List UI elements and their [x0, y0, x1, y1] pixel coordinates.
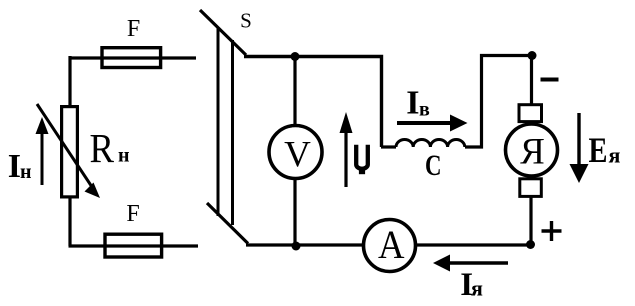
label Iв: [406, 84, 430, 121]
wire coil right lead up to top bus: [465, 56, 532, 148]
svg-text:н: н: [118, 145, 130, 167]
wire voltmeter top lead: [293, 56, 296, 126]
switch S right pole: [231, 40, 234, 225]
junction node (armature bottom): [526, 240, 535, 249]
ammeter A: [364, 220, 416, 272]
svg-text:Я: Я: [520, 132, 545, 173]
svg-text:н: н: [20, 161, 32, 183]
svg-text:F: F: [127, 16, 140, 42]
label plus: [542, 221, 562, 241]
svg-text:I: I: [406, 84, 419, 121]
svg-text:E: E: [589, 130, 608, 170]
rheostat adjustment arrow: [37, 104, 100, 198]
switch S top blade: [200, 10, 246, 55]
switch S bottom blade: [207, 203, 248, 244]
svg-text:я: я: [471, 276, 483, 301]
armature brush bottom: [520, 179, 542, 197]
voltage arrow U: [340, 112, 353, 187]
svg-text:я: я: [609, 143, 621, 168]
svg-text:в: в: [419, 99, 430, 121]
wire top-left horizontal (fuse F1 branch): [70, 56, 196, 59]
emf arrow Eя: [570, 113, 589, 183]
junction node (armature top): [528, 51, 537, 60]
label Eя: [589, 130, 621, 170]
wire armature top lead: [530, 55, 533, 105]
voltmeter V: [269, 126, 322, 179]
fuse F2: [105, 234, 162, 257]
label minus: [541, 78, 559, 82]
svg-text:F: F: [126, 201, 139, 227]
switch S left pole: [217, 28, 220, 216]
current arrow Iн: [36, 117, 49, 185]
svg-text:A: A: [378, 222, 405, 267]
wire voltmeter bottom lead: [293, 178, 296, 246]
current arrow Iв: [397, 115, 468, 132]
svg-text:S: S: [240, 9, 252, 33]
label Iн: [8, 148, 32, 185]
armature brush top: [519, 105, 542, 122]
label U: [356, 145, 368, 174]
svg-text:C: C: [425, 149, 442, 182]
label Iя: [460, 267, 483, 303]
svg-text:V: V: [284, 135, 311, 176]
wire top bus (switch to coil corner, down to coil): [244, 57, 382, 148]
armature Я (motor armature): [506, 124, 558, 176]
junction node (voltmeter bottom): [292, 242, 301, 251]
inductor C (field winding coil): [396, 139, 465, 147]
current arrow Iя: [433, 255, 508, 272]
resistor Rн (rheostat body): [62, 107, 78, 197]
wire bottom-left horizontal (fuse F2 branch): [69, 244, 199, 247]
wire left vertical lower (rheostat to bottom corner): [68, 196, 71, 246]
wire left vertical upper (to rheostat top): [68, 56, 71, 108]
wire coil left lead: [381, 145, 396, 148]
label Rн: [90, 125, 130, 171]
wire bottom bus (switch to armature junction): [246, 243, 530, 246]
wire armature bottom lead: [529, 196, 532, 245]
fuse F1: [102, 48, 161, 68]
svg-text:R: R: [90, 125, 115, 171]
junction node (voltmeter top): [291, 52, 300, 61]
